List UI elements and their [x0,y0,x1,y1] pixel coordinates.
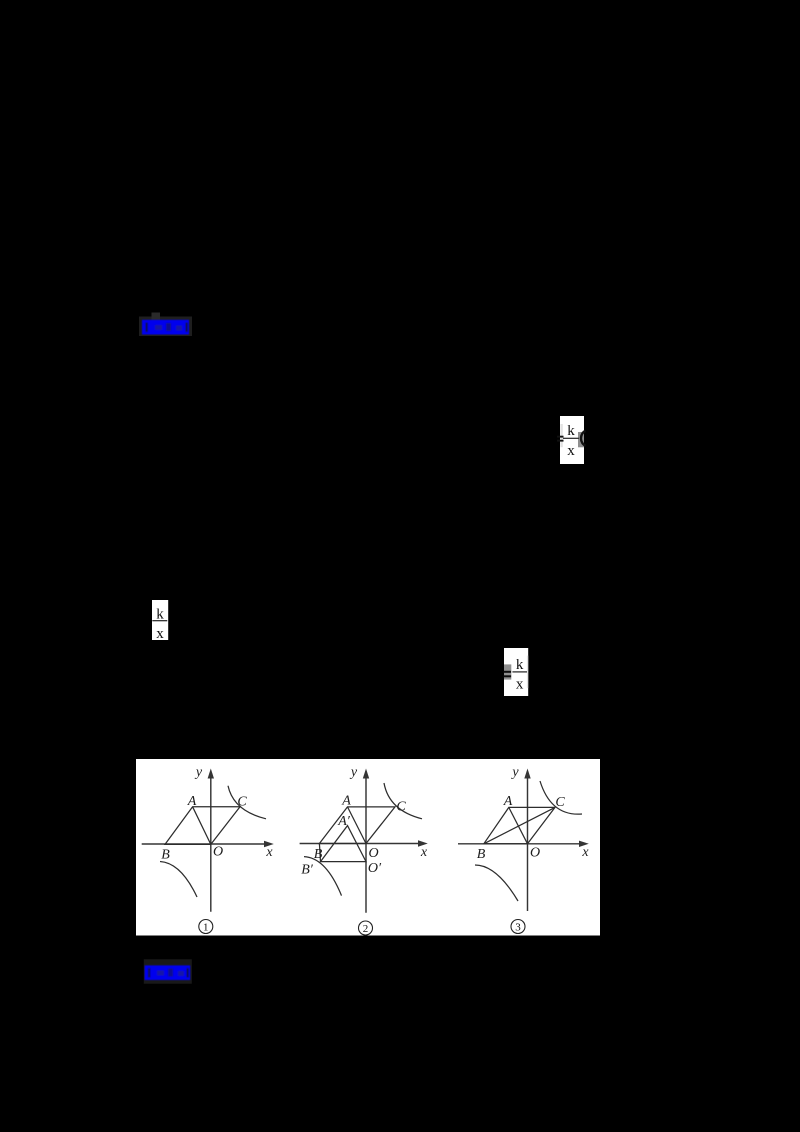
svg-text:2: 2 [363,923,369,935]
panel 1 hyperbola arc Q3 [160,862,197,898]
svg-text:y: y [510,765,519,780]
fraction image 1: white box [560,416,584,464]
svg-text:x: x [420,845,428,860]
svg-text:C: C [396,800,406,815]
panel 3 hyperbola arc Q3 [475,865,518,901]
svg-text:C: C [237,795,247,810]
svg-text:1: 1 [203,922,209,934]
svg-text:k: k [567,423,575,439]
blue header blob 2 halo [144,959,192,983]
fraction image 2: white box [152,600,168,640]
svg-text:C: C [555,795,565,810]
panel 2 circled number 2 [359,921,373,935]
svg-text:B: B [161,848,170,863]
svg-text:A: A [341,794,351,809]
panel 3 quadrilateral BACO with diagonals [484,807,555,843]
panel 2 parallelogram BACO [319,807,395,844]
blue header blob 2 [145,965,191,980]
svg-text:x: x [516,677,524,693]
fraction 1: k over x [563,423,579,459]
svg-text:O: O [368,846,378,861]
fraction 2: k over x [152,607,167,642]
svg-text:A: A [187,794,197,809]
svg-text:x: x [156,626,164,642]
panel 3 y-axis [524,769,530,912]
panel 3 labels [477,765,590,862]
fraction 3: k over x [512,657,527,693]
svg-text:x: x [567,443,575,459]
svg-text:k: k [516,657,524,673]
svg-text:x: x [265,845,273,860]
svg-text:x: x [581,845,589,860]
panel 1 circled number 1 [199,920,213,934]
svg-text:O: O [213,845,223,860]
fraction 1: open paren fragment [581,431,586,446]
panel 2 labels [301,765,428,878]
svg-text:3: 3 [515,922,521,934]
panel 1 x-axis [142,841,274,847]
panel 2 translated triangle B'A'O' [319,826,366,862]
panel 1 parallelogram BACO [165,807,240,845]
svg-text:y: y [194,765,203,780]
fraction 3: equals sign on gray [504,671,512,678]
panel 2 hyperbola arc Q3 [304,857,342,896]
svg-text:O: O [530,846,540,861]
panel 3 hyperbola arc Q1 [540,781,582,814]
svg-text:O′: O′ [368,861,382,876]
fraction 1: equals sign fragment [557,436,564,442]
svg-text:B: B [477,847,486,862]
figure: white background box [136,759,600,936]
blue header blob 1 [142,320,189,335]
panel 1 hyperbola arc Q1 [228,786,266,819]
panel 3 x-axis [458,841,589,847]
panel 1 y-axis [208,769,214,912]
svg-text:B′: B′ [301,863,314,878]
blue header blob 1 halo [139,313,192,337]
panel 2 y-axis [363,769,369,913]
fraction image 3: white box [504,648,528,696]
panel 1 labels [161,765,273,863]
svg-text:A′: A′ [337,814,351,829]
svg-text:B: B [314,847,323,862]
panel 2 hyperbola arc Q1 [384,783,422,819]
panel 3 circled number 3 [511,920,525,934]
svg-text:y: y [349,765,358,780]
svg-text:A: A [503,794,513,809]
panel 2 x-axis [300,840,428,846]
